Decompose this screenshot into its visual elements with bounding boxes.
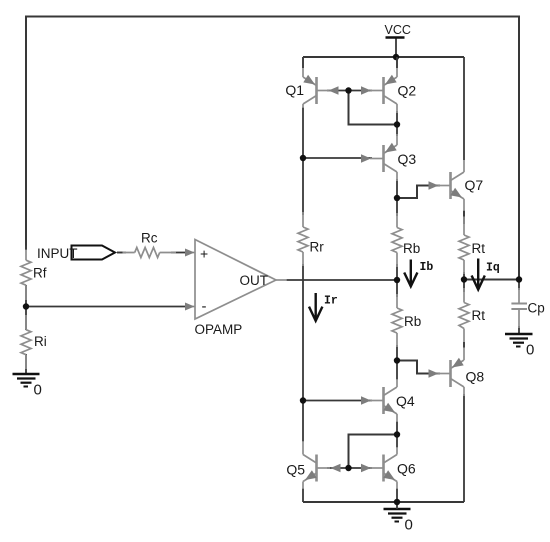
current arrow Ib [404,260,433,287]
transistor Q8 (PNP, right-facing, emitter up) [437,342,464,396]
wire: Q8 collector down to ground rail [463,394,465,502]
wire: node A to Q3 base [303,157,372,159]
wire: node A to Rr top [302,158,304,215]
resistor Rf [21,246,47,301]
junction: node A (Q1 collector / Q3 base / Rr) [300,155,306,161]
wire: inverting input from Rf/Ri node to opamp [26,306,187,308]
op-amp - input pin arrow [185,303,195,311]
svg-text:Ib: Ib [420,261,434,274]
wire: Rf-Ri junction column segment [25,285,27,330]
svg-text:Rt: Rt [472,308,486,323]
svg-text:0: 0 [405,517,413,534]
wire: Q5 emitter down to ground rail [302,488,304,502]
wire: Iq node to lower Rt [463,280,465,293]
svg-text:Q3: Q3 [398,151,417,167]
resistor Rt (upper) [459,211,485,274]
wire: node D to Q6 collector [396,435,398,449]
wire: Ib node to lower Rb [396,280,398,297]
transistor Q8 label [466,369,485,385]
wire: node B to Rb top [396,198,398,216]
current arrow Ir [309,293,338,321]
transistor Q1 base pin arrow [329,86,339,94]
wire: node D to Q5/Q6 base node [349,435,398,469]
transistor Q2 label [398,83,417,99]
junction: Q5/Q6 base node [345,465,351,471]
INPUT port [37,246,115,262]
transistor Q6 base pin arrow [361,464,371,472]
resistor Rr [298,212,324,266]
VCC power symbol [385,23,411,38]
wire: Q4 emitter to node D [396,421,398,435]
svg-text:Rb: Rb [403,241,420,256]
wire: Cp bottom to ground [518,326,520,334]
wire: Q3 collector to node B [396,179,398,198]
op-amp label OUT [240,273,269,288]
resistor Rc [117,231,176,258]
wire: node C to Q8 base [397,361,440,374]
wire: INPUT port to Rc [117,252,126,254]
wire: pin-end tick at Rf top [25,246,27,250]
wire: pin-end tick Q2 emitter below rail [396,57,398,68]
svg-text:Q8: Q8 [466,369,485,385]
svg-text:Cp: Cp [528,301,545,316]
wire: Rt to Iq node [463,272,465,280]
wire: feedback loop (left vertical, top horizontal, right vertical) [26,17,519,280]
wire: rail corner down to Q7 collector [463,57,465,160]
svg-text:Rt: Rt [472,241,486,256]
wire: Rc to opamp non-inverting input [171,252,187,254]
ground 0 (left, below Ri) [13,374,42,399]
junction: Ib node (OUT / Rb / Rb) [394,277,400,283]
junction: node C (Q4 collector / Q8 base / Rb) [394,357,400,363]
transistor Q7 base pin arrow [429,181,439,189]
wire: node C to Q4 collector [396,361,398,381]
junction: VCC rail node [393,54,399,60]
current arrow Iq [472,259,500,290]
svg-text:Q4: Q4 [396,393,415,409]
svg-text:Q6: Q6 [397,461,416,477]
svg-text:Rb: Rb [404,314,421,329]
transistor Q5 base pin arrow [331,464,341,472]
wire: VCC power rail [303,56,464,58]
svg-text:-: - [202,298,207,315]
wire: lower Rb to node C [396,345,398,361]
wire: Q7 emitter to Rt top [463,210,465,224]
transistor Q7 (NPN, right-facing) [437,160,464,211]
svg-text:Rf: Rf [33,266,47,281]
transistor Q3 (PNP, right-facing) [370,134,397,181]
transistor Q3 label [398,151,417,167]
svg-text:Q7: Q7 [465,177,484,193]
resistor Rb (lower) [392,294,421,347]
junction: Q2 collector node [394,121,400,127]
transistor Q1 label [285,82,304,98]
transistor Q2 base pin arrow [361,86,371,94]
op-amp label OPAMP [195,322,243,337]
wire: Rb to Ib node [396,264,398,280]
resistor Rt (lower) [459,288,485,342]
wire: opamp output OUT to Ib node [286,279,397,281]
wire: pin-end tick Q7 emitter to Rt [463,211,465,217]
junction: Cp node [516,276,522,282]
wire: Q1/Q2 base link [327,90,372,92]
transistor Q3 base pin arrow [361,154,371,162]
junction: Iq node (Rt / Rt) [461,276,467,282]
svg-text:Q1: Q1 [285,82,304,98]
transistor Q7 label [465,177,484,193]
wire: Iq node link to Cp node [464,279,519,281]
svg-text:VCC: VCC [385,23,411,37]
wire: pin-end tick at INPUT port tip [117,252,123,254]
svg-text:Rr: Rr [310,240,325,255]
svg-text:OUT: OUT [240,273,269,288]
wire: pin-end tick Q1 emitter below rail [302,57,304,68]
wire: Q2 base-collector diode connection [349,91,398,125]
resistor Rb (upper) [392,213,420,267]
resistor Ri [21,315,47,369]
svg-text:INPUT: INPUT [37,246,78,261]
svg-text:Iq: Iq [486,262,500,275]
svg-text:Rc: Rc [141,231,158,246]
transistor Q2 (PNP, right-facing) [370,57,397,113]
junction: node D (Q4 emitter / Q6 collector) [394,431,400,437]
transistor Q5 label [286,462,305,478]
transistor Q8 base pin arrow [429,369,439,377]
wire: pin-end tick Rt to Q8 emitter [463,342,465,348]
svg-text:0: 0 [526,342,534,359]
op-amp + input pin arrow [185,249,195,257]
wire: Rr bottom to OUT line down to Q4 base node and Q5 collector [302,264,304,442]
transistor Q6 (NPN, right-facing) [370,447,397,489]
wire: bottom ground rail [303,501,464,503]
junction: node B (Q3 collector / Q7 base / Rb) [394,195,400,201]
wire: VCC stub [395,39,397,58]
wire: node to Q3 emitter [396,125,398,137]
svg-text:0: 0 [34,382,42,399]
svg-text:+: + [200,246,208,262]
svg-text:OPAMP: OPAMP [195,322,243,337]
transistor Q4 label [396,393,415,409]
wire: Q2 collector to node [396,111,398,125]
junction: Rf/Ri inverting node [23,303,29,309]
wire: Q4 base node to Q4 base [303,400,372,402]
wire: Ri to ground stub [25,354,27,374]
wire: Q5/Q6 base link [327,467,372,469]
transistor Q4 (NPN, right-facing) [370,379,397,422]
transistor Q6 label [397,461,416,477]
wire: Q1 collector to node A (Q3 base node) [302,107,304,158]
transistor Q4 base pin arrow [361,396,371,404]
transistor Q5 (NPN, left-facing) [303,441,330,489]
junction: Q4 base node [300,397,306,403]
transistor Q1 (PNP, left-facing) [303,57,330,108]
op-amp U1 triangle [195,240,287,320]
ground 0 (below Cp) [505,334,534,359]
svg-text:Q2: Q2 [398,83,417,99]
svg-text:Ir: Ir [324,295,338,308]
ground 0 (bottom, below ground rail) [384,502,413,534]
junction: Q1/Q2 base node [345,87,351,93]
wire: node B to Q7 base [397,186,440,199]
capacitor Cp [511,288,544,328]
junction: ground rail node [394,499,400,505]
wire: Cp node to Cp top [518,280,520,291]
svg-text:Ri: Ri [34,334,47,349]
wire: Q6 emitter down to ground rail [396,488,398,502]
svg-text:Q5: Q5 [286,462,305,478]
